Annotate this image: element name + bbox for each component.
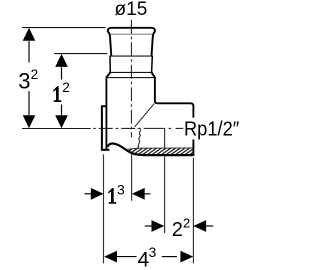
bottom outer profile curve [107,144,192,156]
wavy break line [133,128,141,151]
extension line from axis corner down (line 3) [164,128,166,148]
svg-text:ø15: ø15 [115,0,148,20]
shoulder line [106,77,156,79]
svg-text:3: 3 [18,69,30,94]
inner cone diagonal [135,104,155,127]
hatch band (thread) [128,148,194,155]
hatch band top edge [128,148,194,149]
reference line at axis left [22,128,91,130]
svg-text:2: 2 [183,215,190,230]
dimension 1-3 [85,182,151,204]
bead underside line [110,33,152,35]
extension line 4 (right face) [192,158,194,263]
svg-text:3: 3 [149,244,157,260]
extension line 1 (left face) [103,154,105,263]
dimension 4-3 [104,244,193,270]
svg-text:2: 2 [172,219,183,241]
socket ring wall left [109,56,111,72]
socket ring wall right [151,56,154,72]
svg-text:2: 2 [62,80,70,95]
flange bottom cap [101,149,109,151]
socket step line [109,55,153,57]
svg-text:2: 2 [31,67,39,82]
flare left [106,72,110,77]
flange top cap [101,105,106,107]
dimension 2-2 [145,215,213,241]
vertical centerline [130,20,132,138]
svg-text:3: 3 [117,182,125,198]
flange outer wall [101,106,103,150]
dimension 3-2 [18,28,38,128]
flare right [152,72,155,77]
extension line (dim 12 top) [54,53,107,55]
ring bottom line [110,71,151,73]
body left wall down to flange bottom [105,78,107,150]
svg-text:Rp1/2″: Rp1/2″ [184,117,239,140]
right face lower segment [192,140,194,157]
press socket bead [108,28,155,56]
dimension 1-2 [53,54,70,128]
extension line top (bead top) [22,27,106,29]
horizontal centerline dash-dot through body [93,127,183,129]
body right wall, step and right face upper [155,78,194,118]
extension line 2 (axis) [131,154,133,201]
